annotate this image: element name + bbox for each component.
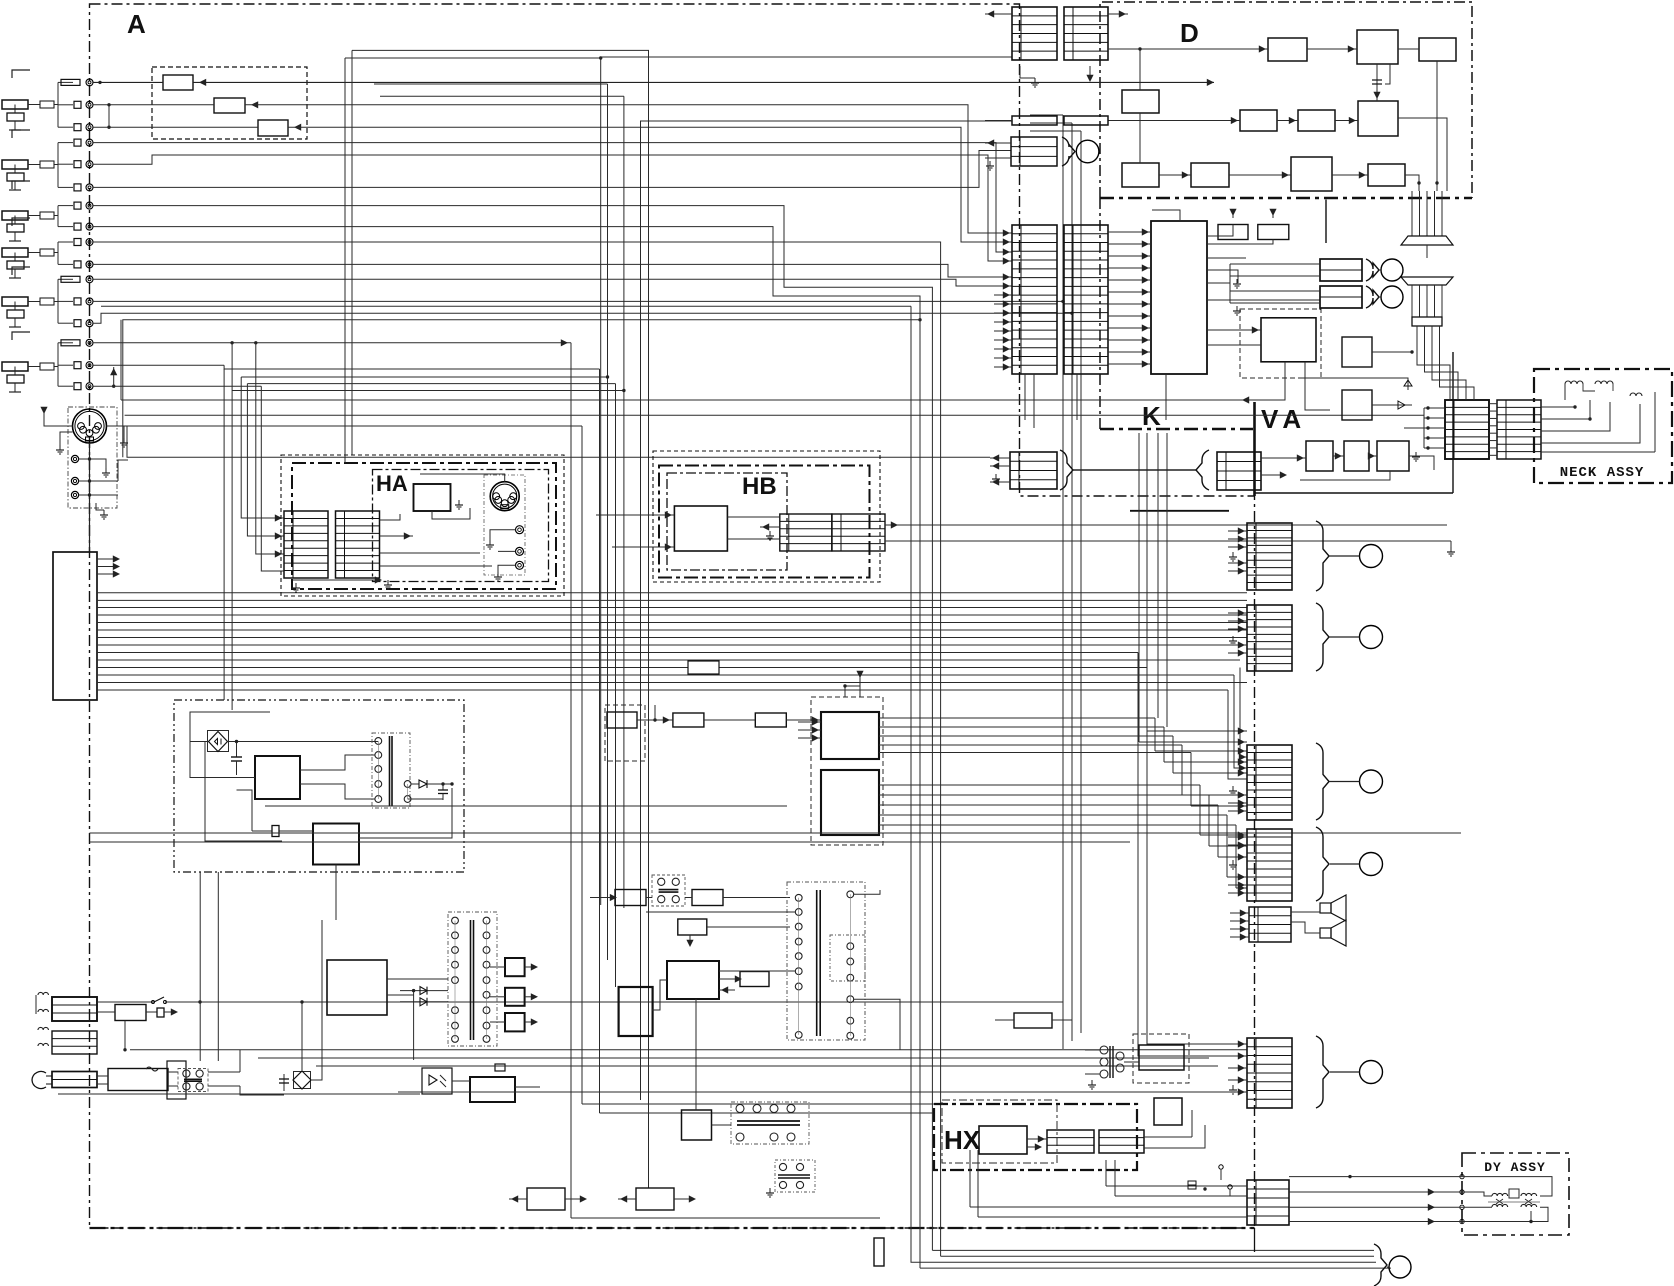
- VA link cable: [1073, 469, 1196, 471]
- DY yoke coil H1: [1492, 1193, 1508, 1196]
- HA amp IC: [414, 484, 451, 511]
- wire in 8: [93, 227, 920, 320]
- HB main IC: [674, 506, 727, 551]
- HA DIN socket: [490, 482, 519, 511]
- wire HB to VA: [885, 524, 1447, 526]
- wiring jack J4 to pins: [57, 242, 59, 264]
- D ribbon cable: [1411, 191, 1413, 236]
- speaker symbol L: [1320, 903, 1331, 913]
- HA feed drop 2: [241, 376, 607, 378]
- relay line: [130, 1049, 1247, 1051]
- wire in 15: [93, 364, 224, 366]
- input jack J1: [12, 70, 30, 78]
- wiring jack J5 to pins: [57, 279, 59, 323]
- K IC right side wires: [1207, 257, 1246, 259]
- connector pin 2 of board A input: [74, 101, 81, 108]
- D block b1: [1268, 38, 1307, 61]
- line filter block: [108, 1069, 168, 1091]
- K internal wiring: [1108, 231, 1151, 233]
- trunk bottom bends to CRT leads: [932, 1249, 1374, 1251]
- CRT cap terminal: [1389, 1256, 1411, 1278]
- input jack J2: [12, 130, 30, 138]
- B+ rectifier diodes: [400, 990, 448, 992]
- trunk riser dark: [352, 50, 649, 1188]
- svg-text:HA: HA: [376, 471, 408, 496]
- wire video-in 1: [93, 81, 163, 83]
- switching regulator IC701: [255, 756, 300, 799]
- vert aux block: [740, 972, 769, 987]
- power feed drop: [231, 391, 233, 711]
- DY connector terminals: [1460, 1174, 1464, 1178]
- bridge rectifier D701: [208, 731, 229, 752]
- line filter transformer: [167, 1061, 186, 1099]
- HX drive block: [979, 1126, 1027, 1154]
- DIN AV socket: [73, 409, 107, 443]
- block HA outer dashed frame: [281, 455, 564, 596]
- main bridge capacitor: [283, 1074, 285, 1091]
- phono jack A2: [71, 477, 78, 484]
- DY ASSY frame: [1462, 1153, 1569, 1235]
- bottom dashed stub right: [1254, 1228, 1256, 1252]
- filter block FL1: [163, 75, 193, 90]
- connector pin 15 of board A input: [74, 362, 81, 369]
- svg-text:A: A: [127, 9, 146, 39]
- HB connector CN1: [780, 514, 832, 551]
- neck inter-connector wires: [1489, 403, 1497, 405]
- wiring jack J1 to pins: [57, 82, 59, 127]
- HA feed drop 1: [224, 365, 599, 369]
- SMPS transformer T701: [372, 733, 410, 808]
- CRT gun terminal R: [1360, 545, 1383, 568]
- trunk riser to D connector: [601, 57, 1012, 905]
- heater driver IC: [619, 987, 653, 1036]
- svg-text:NECK ASSY: NECK ASSY: [1560, 465, 1645, 481]
- D block b9: [1191, 163, 1229, 187]
- block HB module frame: [667, 473, 787, 570]
- D block b11: [1368, 164, 1405, 186]
- AC wiring: [97, 1075, 108, 1077]
- DY coil crossing marks: [1496, 1199, 1532, 1204]
- risers to power supply: [199, 872, 201, 1061]
- chopper transformer T601: [448, 912, 497, 1046]
- vert drive block 2: [692, 890, 723, 906]
- terminal strip outputs: [97, 558, 118, 560]
- jungle outputs upper: [879, 717, 1155, 719]
- wire in 14: [93, 342, 571, 344]
- K connector CN_K1: [1012, 225, 1057, 374]
- connector pin 12 of board A input: [74, 298, 81, 305]
- wire in 16: [93, 385, 261, 387]
- connector pin 16 of board A input: [74, 383, 81, 390]
- D wiring b2-b7: [1376, 64, 1378, 101]
- bus inline jumper block: [688, 661, 719, 674]
- HX connector 1: [1047, 1130, 1094, 1153]
- power supply frame (dash-dot-dot): [174, 700, 464, 872]
- hdrive sub transformer: [775, 1160, 815, 1192]
- vertical trunk bundle left of HB: [570, 343, 572, 1218]
- vert drive block 1: [615, 890, 646, 906]
- connector pin 8 of board A input: [74, 223, 81, 230]
- D one-rung connectors: [1012, 116, 1057, 125]
- wiring jack J2 to pins: [57, 143, 59, 188]
- block HB inner frame: [659, 466, 870, 578]
- CRT bundle from K: [1146, 433, 1148, 731]
- wire in 9: [93, 242, 941, 1256]
- CRT socket connector R: [1247, 523, 1292, 590]
- HB internal wiring: [727, 516, 779, 518]
- terminal strip block TB1: [53, 552, 97, 700]
- neck feed wires from K: [1417, 326, 1450, 400]
- neck connector CN_N2: [1497, 400, 1541, 459]
- DY internal wiring: [1462, 1177, 1552, 1196]
- block HA module frame: [373, 470, 549, 582]
- sync sep dashed box: [605, 705, 645, 761]
- bridge output risers: [301, 1002, 303, 1071]
- VA aux square 2: [1342, 390, 1372, 420]
- D block b10: [1291, 157, 1332, 191]
- connector pin 11 of board A input: [61, 276, 80, 282]
- AC inlet plug: [32, 1071, 46, 1088]
- HX wiring: [1027, 1138, 1047, 1140]
- long mid horizontal y457: [127, 426, 990, 457]
- DIN socket wiring: [89, 443, 91, 552]
- CRT gun terminal B: [1360, 770, 1383, 793]
- connector pin 9 of board A input: [74, 239, 81, 246]
- speaker symbol R: [1320, 928, 1331, 938]
- wiring jack J6 to pins: [57, 343, 59, 386]
- block VA bottom border: [1255, 492, 1454, 494]
- aux block low 1: [527, 1188, 565, 1210]
- CRT socket connector 4: [1247, 829, 1292, 901]
- board A outline (dash-dot border): [90, 4, 1255, 1228]
- input filter dashed box: [152, 67, 307, 139]
- CRT socket connector G: [1247, 605, 1292, 671]
- jungle left pins: [798, 721, 821, 723]
- regulator wiring: [190, 712, 255, 778]
- vertical output IC: [667, 961, 719, 999]
- standby regulator: [470, 1077, 515, 1102]
- B+ output blocks: [505, 958, 525, 976]
- vertical osc coupling transformer: [652, 875, 685, 906]
- D top connector CN_D1: [1012, 7, 1057, 60]
- svg-text:D: D: [1180, 18, 1199, 48]
- mid horizontal wire 2: [90, 841, 1131, 843]
- ramp generator block: [678, 919, 707, 935]
- filter block FL3: [258, 120, 288, 136]
- HA feed drop 5: [261, 386, 284, 571]
- wire in 12: [93, 300, 1063, 302]
- CRT socket 5 stubs: [1228, 1067, 1247, 1069]
- wire audio-in 6: [93, 151, 1011, 188]
- AFC coupling transformer: [1100, 1046, 1108, 1054]
- block VA right dashed edge: [1452, 352, 1454, 493]
- connector pin 1 of board A input: [61, 79, 80, 85]
- HX inner frame: [942, 1100, 1057, 1163]
- block K bottom border: [1100, 428, 1253, 430]
- wire audio-in 5: [93, 155, 1012, 261]
- regulator block main: [327, 960, 387, 1015]
- jungle IC upper: [821, 712, 879, 759]
- speaker left stubs: [1230, 912, 1249, 914]
- VA aux square 1: [1342, 337, 1372, 367]
- horizontal drive transformer: [731, 1102, 809, 1144]
- K ribbon cable 2: [1401, 277, 1453, 285]
- jungle IC lower: [821, 770, 879, 835]
- VA link stubs: [990, 457, 1010, 459]
- HA internal wiring: [380, 514, 401, 520]
- HX outer frame: [934, 1104, 1137, 1170]
- power switch: [97, 1001, 154, 1003]
- AC input connector: [52, 1072, 97, 1088]
- neck wires to CRT parts: [1541, 406, 1575, 408]
- photo coupler: [422, 1068, 452, 1094]
- CRT lead brace: [1374, 1244, 1387, 1286]
- wire video-in 3: [93, 126, 258, 128]
- svg-text:K: K: [1142, 401, 1161, 431]
- VA link connector right: [1217, 452, 1261, 490]
- CRT socket connector B: [1247, 745, 1292, 820]
- D block b3: [1419, 38, 1456, 61]
- bus drop to CRT socket 3: [1240, 668, 1247, 758]
- connector pin 7 of board A input: [74, 202, 81, 209]
- VA deflection IC: [1261, 318, 1316, 362]
- degauss connector: [52, 997, 97, 1021]
- HA socket frame: [484, 475, 525, 575]
- svg-text:HB: HB: [742, 473, 777, 500]
- input jack J6: [12, 332, 30, 340]
- audio out connector 1: [1320, 259, 1362, 281]
- HB connector CN2: [832, 514, 885, 551]
- input jack J4: [12, 218, 30, 226]
- riser HA to top bundle: [344, 58, 346, 463]
- block D border: [1100, 2, 1472, 198]
- DIN socket frame (dash-dot): [68, 407, 117, 508]
- DY yoke coil V1: [1492, 1204, 1508, 1207]
- CRT gun terminal 5: [1360, 1061, 1383, 1084]
- VA chain wiring: [1261, 457, 1306, 459]
- bus drop to CRT socket 5: [1138, 653, 1247, 1057]
- connector pin 10 of board A input: [74, 261, 81, 268]
- D block b6: [1298, 110, 1335, 131]
- HA feed drop 3: [247, 383, 615, 385]
- CRT gun terminal G: [1360, 626, 1383, 649]
- K bottom exits: [1024, 374, 1026, 420]
- diode to ground: [408, 798, 443, 800]
- VA chain squares: [1306, 441, 1333, 471]
- K aux block 2: [1258, 225, 1289, 240]
- D block b5: [1240, 110, 1277, 131]
- mid horizontal wire 3: [265, 805, 787, 807]
- VA link connector left: [1010, 452, 1057, 489]
- neck coil L3: [1630, 393, 1642, 396]
- DY center link: [1509, 1189, 1519, 1198]
- K conn1 remaining stubs: [994, 294, 1012, 296]
- board A bottom border emphasis: [90, 1227, 1255, 1229]
- HX aux block: [1154, 1098, 1182, 1125]
- DY yoke coil V2: [1521, 1204, 1537, 1207]
- long mid horizontal y400: [121, 399, 1251, 401]
- smoothing capacitor C701: [236, 742, 238, 758]
- D wiring row2: [1139, 49, 1141, 90]
- filter capacitor C702: [442, 784, 444, 790]
- mid horizontal wire 1: [90, 832, 1462, 834]
- secondary rectifier D702: [411, 783, 419, 785]
- wire in 7: [93, 206, 932, 1251]
- block K border: [1099, 198, 1101, 429]
- main bridge rectifier D601: [294, 1072, 311, 1089]
- HX connector 2: [1099, 1130, 1144, 1153]
- K to VA squares wiring: [1372, 351, 1412, 353]
- wire in 11: [93, 279, 1012, 286]
- block HA inner frame: [292, 463, 556, 589]
- sub block B1: [682, 1110, 712, 1140]
- wire audio-in 4: [93, 143, 1012, 252]
- error amp wiring: [252, 830, 313, 832]
- CRT gun terminal 4: [1360, 853, 1383, 876]
- phono jack A1: [71, 455, 78, 462]
- horiz AFC block: [1139, 1045, 1184, 1070]
- jungle IC dashed frame: [811, 697, 883, 845]
- neck connector CN_N1: [1445, 400, 1489, 459]
- wire HB out 2: [885, 540, 1451, 542]
- CRT socket stubs: [1228, 530, 1247, 532]
- flyback secondary sub-box: [830, 935, 865, 981]
- DY connector: [1247, 1180, 1289, 1225]
- feedback line: [205, 742, 282, 842]
- svg-text:VA: VA: [1261, 404, 1307, 434]
- phono jack A3: [71, 491, 78, 498]
- fuse in bottom lead: [874, 1238, 884, 1266]
- svg-text:HX: HX: [944, 1125, 981, 1155]
- D wiring row3: [1159, 174, 1191, 176]
- block VA left border: [1253, 402, 1256, 496]
- CRT drive vertical bundle: [1154, 718, 1156, 751]
- connector pin 4 of board A input: [74, 139, 81, 146]
- HA connector CN1: [284, 511, 328, 578]
- input jack J3: [12, 181, 30, 189]
- DY yoke coil H2: [1521, 1193, 1537, 1196]
- CRT socket connector 5: [1247, 1038, 1292, 1108]
- chain block 3: [755, 713, 786, 727]
- block K right dashed edge: [1325, 200, 1327, 243]
- connector pin 13 of board A input: [74, 320, 81, 327]
- DY left feeds: [1106, 1185, 1247, 1187]
- long mid horizontal y415: [125, 414, 1424, 416]
- wire video-in 2: [93, 104, 214, 106]
- lower horizontal group: [258, 1057, 1209, 1059]
- D block b8: [1122, 163, 1159, 187]
- input jack J5: [12, 267, 30, 275]
- board A lower-right border segment: [1130, 510, 1229, 512]
- flyback transformer T501: [787, 882, 865, 1040]
- sync sep block: [607, 712, 637, 728]
- aux block low 2: [636, 1188, 674, 1210]
- wire in 10: [93, 264, 1012, 277]
- D block b4: [1122, 90, 1159, 113]
- neck coil L2: [1595, 381, 1613, 384]
- VA sub dashed frame: [1240, 309, 1321, 378]
- D top connector CN_D2: [1064, 7, 1108, 60]
- neck left stubs: [1424, 407, 1445, 409]
- chain wiring: [637, 719, 673, 721]
- D wiring row1: [1108, 48, 1268, 50]
- svg-text:DY ASSY: DY ASSY: [1484, 1160, 1546, 1175]
- K aux block 1: [1218, 225, 1248, 240]
- connector pin 6 of board A input: [74, 184, 81, 191]
- HA feed drop 4: [232, 390, 624, 392]
- speaker connector: [1249, 907, 1291, 942]
- K jungle IC501: [1151, 221, 1207, 374]
- vertical pair center-right: [1062, 115, 1064, 1049]
- speaker connector SP: [52, 1031, 97, 1054]
- block D bottom border: [1100, 197, 1472, 200]
- DY connector stubs: [1220, 1170, 1222, 1180]
- degauss PTC: [115, 1005, 146, 1021]
- D block b7: [1358, 101, 1398, 136]
- audio out feed wires: [1230, 263, 1320, 265]
- HA phono jacks: [516, 526, 524, 534]
- D connector exits: [985, 13, 1012, 15]
- error amp IC702: [313, 824, 359, 865]
- wire into HB: [596, 514, 640, 516]
- flyback wiring: [719, 970, 795, 972]
- tuner connector: [1011, 137, 1057, 166]
- main horizontal bus: [97, 592, 1247, 594]
- D block b2: [1357, 30, 1398, 64]
- connector pin 5 of board A input: [74, 161, 81, 168]
- audio out connector 2: [1320, 286, 1362, 308]
- connector pin 14 of board A input: [61, 340, 80, 346]
- HA connector CN2: [336, 511, 380, 578]
- NECK ASSY frame: [1534, 369, 1672, 483]
- wiring jack J3 to pins: [57, 206, 59, 227]
- chain block 2: [673, 713, 704, 727]
- HX input small block: [1014, 1013, 1052, 1028]
- wire riser below DIN: [123, 320, 920, 457]
- power input loop: [190, 712, 270, 742]
- wire in 13: [93, 313, 1072, 323]
- trunk riser to D one-rung connector: [641, 121, 1013, 1100]
- filter block FL2: [214, 98, 245, 113]
- wire focus lead: [1300, 378, 1408, 390]
- block HB outer dashed frame: [653, 451, 880, 582]
- K connector CN_K2: [1064, 225, 1108, 374]
- jungle outputs lower: [879, 784, 1200, 786]
- DY feed wires: [1289, 1176, 1462, 1178]
- connector pin 3 of board A input: [74, 124, 81, 131]
- horiz AFC dashed box: [1133, 1034, 1189, 1083]
- neck coil L1: [1565, 381, 1583, 384]
